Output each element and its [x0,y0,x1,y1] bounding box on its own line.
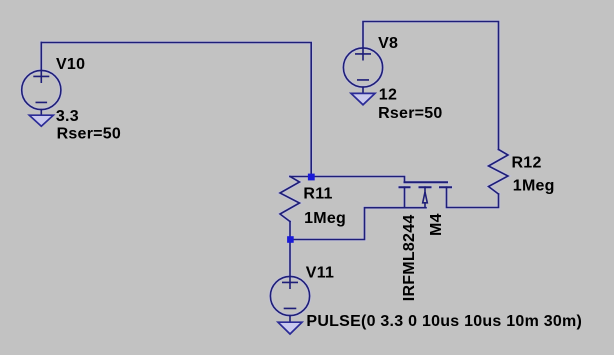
svg-text:R11: R11 [303,186,332,203]
svg-text:Rser=50: Rser=50 [57,126,121,143]
svg-text:V11: V11 [306,264,334,281]
svg-text:V8: V8 [378,35,398,52]
svg-text:1Meg: 1Meg [513,178,555,195]
svg-text:3.3: 3.3 [56,108,79,125]
svg-text:PULSE(0 3.3 0 10us 10us 10m 30: PULSE(0 3.3 0 10us 10us 10m 30m) [306,313,582,330]
svg-text:IRFML8244: IRFML8244 [401,214,418,301]
svg-text:M4: M4 [428,213,445,236]
svg-text:1Meg: 1Meg [304,210,346,227]
svg-text:Rser=50: Rser=50 [378,105,442,122]
svg-text:V10: V10 [56,56,85,73]
svg-text:12: 12 [379,87,397,104]
svg-text:R12: R12 [512,155,542,172]
